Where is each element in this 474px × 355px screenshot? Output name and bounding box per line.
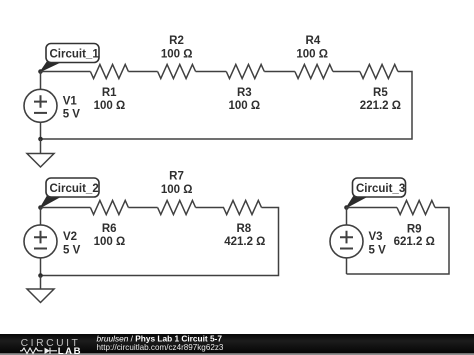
voltage source V1 (24, 89, 80, 122)
svg-text:Circuit_1: Circuit_1 (50, 48, 100, 60)
wire R9 right side and bottom return circuit 3 (347, 208, 450, 275)
svg-text:Circuit_3: Circuit_3 (356, 183, 405, 195)
svg-text:R3: R3 (237, 87, 252, 99)
svg-text:621.2 Ω: 621.2 Ω (394, 236, 435, 248)
resistor R6 (90, 201, 128, 248)
svg-text:5 V: 5 V (63, 109, 81, 121)
svg-text:R4: R4 (306, 35, 321, 47)
resistor R2 (158, 35, 196, 78)
resistor R8 (224, 201, 266, 248)
footer black bar (0, 334, 474, 354)
wire R8 right side and bottom return circuit 2 (41, 208, 279, 276)
wire V1 bottom to ground net (40, 122, 42, 139)
resistor R4 (295, 35, 333, 78)
svg-text:V3: V3 (369, 231, 383, 243)
resistor R9 (394, 201, 435, 248)
resistor R5 (360, 65, 401, 112)
wire V1 top to R1 (41, 72, 91, 90)
wire R3 to R4 (264, 71, 295, 73)
svg-text:R2: R2 (169, 35, 184, 47)
svg-text:221.2 Ω: 221.2 Ω (360, 100, 401, 112)
svg-text:5 V: 5 V (369, 244, 387, 256)
svg-text:R8: R8 (236, 223, 251, 235)
footer gray bottom strip (0, 353, 474, 355)
svg-text:100 Ω: 100 Ω (161, 184, 193, 196)
wire R4 to R5 (333, 71, 360, 73)
svg-text:5 V: 5 V (63, 245, 81, 257)
junction node bottom-left circuit 1 (38, 137, 43, 142)
svg-text:V1: V1 (63, 95, 78, 107)
svg-text:421.2 Ω: 421.2 Ω (224, 236, 265, 248)
svg-text:R6: R6 (102, 223, 117, 235)
flag/callout Circuit_1 (41, 44, 100, 72)
node dot net1 top-left (38, 69, 43, 74)
ground GND1 (27, 139, 54, 167)
resistor R7 (158, 171, 196, 215)
junction node bottom-left circuit 2 (38, 273, 43, 278)
svg-text:100 Ω: 100 Ω (296, 48, 328, 60)
wire V2 top to R6 (41, 208, 91, 225)
svg-text:100 Ω: 100 Ω (94, 100, 126, 112)
svg-text:R1: R1 (102, 87, 117, 99)
resistor R3 (226, 65, 264, 112)
svg-text:R7: R7 (169, 171, 184, 183)
svg-text:bruulsen / Phys Lab 1 Circuit: bruulsen / Phys Lab 1 Circuit 5-7 (97, 333, 223, 343)
wire R7 to R8 (196, 207, 224, 209)
wire V3 top to R9 (347, 208, 398, 225)
wire R5 right side and bottom return (41, 72, 413, 140)
ground GND2 (27, 276, 54, 303)
wire R6 to R7 (128, 207, 157, 209)
svg-text:100 Ω: 100 Ω (161, 48, 193, 60)
svg-text:R9: R9 (407, 223, 422, 235)
node dot net2 top-left (38, 205, 43, 210)
svg-text:100 Ω: 100 Ω (228, 100, 260, 112)
voltage source V3 (330, 225, 386, 258)
svg-text:LAB: LAB (58, 346, 82, 355)
node dot net3 top-left (344, 205, 349, 210)
svg-text:Circuit_2: Circuit_2 (50, 183, 99, 195)
wire V3 bottom to loop bottom (346, 258, 348, 274)
svg-text:http://circuitlab.com/cz4r897k: http://circuitlab.com/cz4r897kg62z3 (97, 343, 224, 352)
flag/callout Circuit_3 (347, 178, 406, 208)
wire R1 to R2 (128, 71, 157, 73)
svg-text:V2: V2 (63, 231, 77, 243)
svg-text:100 Ω: 100 Ω (94, 236, 126, 248)
wire R2 to R3 (196, 71, 227, 73)
svg-text:R5: R5 (373, 87, 388, 99)
voltage source V2 (24, 225, 81, 258)
flag/callout Circuit_2 (41, 178, 100, 208)
resistor R1 (90, 65, 128, 112)
wire V2 bottom to ground net (40, 258, 42, 276)
CircuitLab logo (20, 338, 82, 355)
